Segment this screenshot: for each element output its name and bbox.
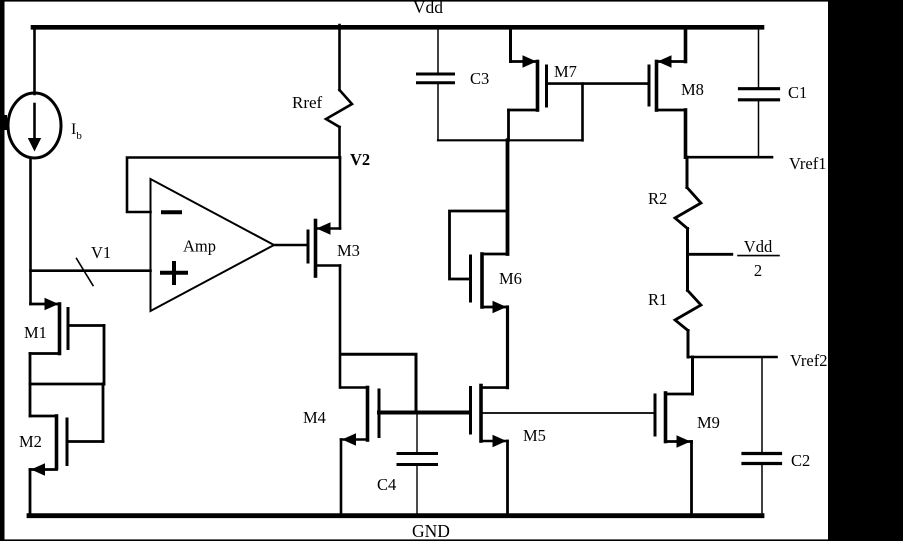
svg-text:Vdd: Vdd	[744, 237, 773, 256]
svg-text:Vref1: Vref1	[789, 154, 827, 173]
svg-text:R2: R2	[648, 189, 667, 208]
wire M2 source to GND	[29, 470, 32, 516]
capacitor C1	[740, 27, 779, 157]
svg-text:V2: V2	[350, 150, 370, 169]
svg-text:C4: C4	[377, 475, 396, 494]
svg-text:Vdd: Vdd	[413, 0, 443, 17]
svg-text:R1: R1	[648, 290, 667, 309]
transistor M7	[509, 27, 547, 140]
transistor M4	[341, 388, 379, 446]
wire M3 source to M4 gate node	[341, 354, 416, 412]
op-amp U1 Amp	[151, 179, 275, 311]
svg-text:V1: V1	[91, 243, 111, 262]
op-amp U1 feedback wire	[127, 158, 340, 213]
svg-text:M2: M2	[19, 432, 42, 451]
node Vref1 wire	[686, 156, 773, 159]
wire current source to M1	[29, 158, 32, 304]
capacitor C2	[743, 357, 781, 515]
wire Vdd to current source	[33, 27, 36, 94]
wire M1 gate tie	[30, 383, 104, 386]
resistor R1	[675, 254, 701, 357]
Vdd rail	[33, 25, 762, 30]
wire Vref2 to M9 drain	[691, 357, 694, 394]
wire M6 source to M5 drain	[506, 307, 509, 388]
wire M5 to M9 gate	[481, 412, 655, 414]
transistor M5	[471, 386, 508, 448]
resistor R2	[675, 157, 701, 254]
node Vdd/2 tap wire	[688, 253, 732, 256]
wire M7 M8 gate bus	[547, 82, 650, 85]
svg-text:M6: M6	[499, 269, 522, 288]
wire op-amp output to M3 gate	[274, 244, 307, 246]
svg-text:C3: C3	[470, 69, 489, 88]
svg-text:M5: M5	[523, 426, 546, 445]
svg-text:Rref: Rref	[292, 93, 323, 112]
wire C3 bottom bus	[438, 139, 583, 141]
svg-text:Vref2: Vref2	[790, 351, 828, 370]
Vdd/2 label	[738, 237, 779, 280]
wire M1 source to M2	[29, 354, 32, 417]
wire V2 to M3 drain	[339, 158, 342, 229]
svg-text:M3: M3	[337, 241, 360, 260]
V1 slash tick	[77, 259, 94, 286]
svg-text:C2: C2	[791, 451, 810, 470]
transistor M6	[471, 254, 508, 313]
svg-text:M4: M4	[303, 408, 326, 427]
capacitor C4	[398, 413, 437, 516]
transistor M9	[655, 393, 693, 448]
svg-text:C1: C1	[788, 83, 807, 102]
wire M5 source to GND	[506, 441, 509, 515]
svg-text:2: 2	[754, 261, 762, 280]
wire gate bus down to mirror node	[581, 84, 584, 141]
resistor Rref	[326, 25, 352, 158]
M6 gate tie wire	[450, 211, 508, 279]
svg-text:M7: M7	[554, 62, 577, 81]
transistor M1	[30, 298, 104, 384]
transistor M2	[30, 384, 103, 476]
wire M6 drain column	[506, 140, 510, 254]
svg-text:M8: M8	[681, 80, 704, 99]
svg-text:M9: M9	[697, 413, 720, 432]
wire M4 source to GND	[340, 440, 343, 516]
capacitor C3	[418, 27, 454, 140]
node Vref2 wire	[688, 356, 777, 359]
current source Ib	[8, 93, 61, 158]
svg-text:Amp: Amp	[183, 237, 216, 256]
node V1 wire	[31, 269, 151, 272]
svg-text:M1: M1	[24, 323, 47, 342]
transistor M3	[308, 221, 340, 277]
wire M9 source to GND	[690, 442, 693, 516]
wire M4 gate bus to M5 gate	[379, 411, 470, 415]
svg-text:GND: GND	[412, 521, 450, 541]
transistor M8	[649, 27, 686, 157]
wire M3 source down	[339, 266, 342, 388]
GND rail	[29, 513, 762, 518]
